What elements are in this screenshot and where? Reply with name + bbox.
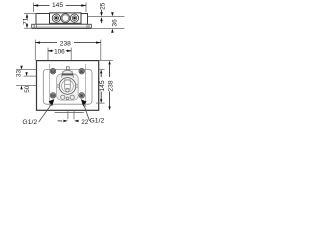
- unit rect with circles: [50, 13, 82, 23]
- central plate outline: [57, 74, 79, 100]
- black arrows on leaders: [49, 99, 55, 106]
- right extension lines: [99, 60, 113, 62]
- cartridge: [65, 80, 71, 89]
- corner screws: [50, 69, 84, 99]
- circle left (screw): [52, 14, 60, 22]
- dim 33: [20, 66, 22, 70]
- inner rounded rect: [43, 69, 92, 104]
- dim 145 extension lines: [34, 3, 87, 13]
- bottom shelf line: [55, 112, 84, 114]
- dim 50: [20, 86, 22, 90]
- svg-text:G1/2: G1/2: [90, 118, 105, 125]
- svg-text:106: 106: [54, 49, 65, 56]
- svg-text:33: 33: [15, 70, 22, 78]
- svg-text:238: 238: [108, 80, 115, 91]
- svg-text:145: 145: [52, 2, 63, 9]
- right side reference lines: [88, 16, 125, 18]
- body rect (escutcheon profile): [36, 14, 88, 25]
- dim 238 vertical: [108, 61, 110, 65]
- top dome: [66, 67, 69, 70]
- svg-text:145: 145: [99, 80, 106, 91]
- outer square: [37, 61, 99, 111]
- dim 106: [48, 48, 71, 65]
- svg-text:238: 238: [60, 41, 71, 48]
- dim 36: [111, 12, 114, 16]
- svg-text:25: 25: [99, 2, 106, 10]
- central circles: [59, 78, 76, 95]
- left extension lines: [16, 69, 37, 71]
- svg-text:36: 36: [111, 19, 118, 27]
- dim 145 line + arrows: [34, 5, 87, 7]
- circle right (screw): [70, 14, 78, 22]
- circle middle: [61, 14, 70, 23]
- assembly vertical guide lines: [50, 64, 86, 107]
- svg-text:71: 71: [23, 17, 30, 25]
- base plate: [32, 24, 92, 28]
- svg-text:50: 50: [24, 85, 31, 93]
- side tabs: [57, 85, 60, 88]
- leaders: [39, 104, 52, 122]
- dim 71 left: [24, 14, 36, 29]
- svg-text:22: 22: [81, 119, 89, 126]
- bottom small circles: [61, 95, 65, 99]
- dim 238 horizontal: [35, 40, 101, 61]
- dim 145 vertical: [100, 70, 102, 74]
- bottom dim 22: [68, 110, 74, 119]
- svg-text:G1/2: G1/2: [22, 119, 37, 126]
